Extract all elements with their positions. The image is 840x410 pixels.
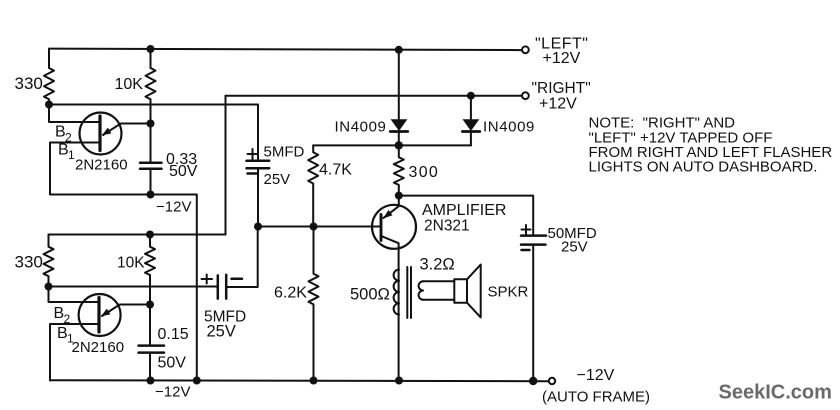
svg-text:2N2160: 2N2160 [75, 157, 128, 174]
svg-text:−12V: −12V [577, 367, 615, 384]
svg-text:SPKR: SPKR [488, 284, 529, 301]
svg-text:−12V: −12V [155, 384, 190, 401]
svg-text:4.7K: 4.7K [319, 162, 352, 179]
svg-text:3.2Ω: 3.2Ω [420, 256, 455, 274]
svg-text:LIGHTS ON AUTO DASHBOARD.: LIGHTS ON AUTO DASHBOARD. [589, 159, 818, 176]
svg-text:2N321: 2N321 [424, 218, 470, 235]
svg-text:+12V: +12V [543, 50, 581, 67]
svg-text:10K: 10K [117, 255, 145, 272]
svg-text:2: 2 [64, 312, 71, 326]
svg-text:AMPLIFIER: AMPLIFIER [422, 202, 506, 219]
svg-text:IN4009: IN4009 [483, 119, 535, 136]
svg-text:−12V: −12V [156, 199, 191, 216]
svg-text:25V: 25V [207, 323, 236, 341]
svg-text:500Ω: 500Ω [350, 286, 390, 304]
svg-text:25V: 25V [264, 171, 291, 188]
svg-text:IN4009: IN4009 [335, 119, 387, 136]
svg-text:10K: 10K [115, 76, 144, 93]
svg-text:5MFD: 5MFD [264, 144, 305, 161]
svg-text:50V: 50V [158, 355, 187, 372]
svg-text:(AUTO FRAME): (AUTO FRAME) [542, 389, 650, 406]
svg-text:2N2160: 2N2160 [72, 339, 125, 356]
svg-text:"RIGHT": "RIGHT" [532, 80, 591, 97]
svg-text:0.15: 0.15 [158, 326, 189, 343]
svg-text:300: 300 [409, 164, 440, 181]
svg-text:50V: 50V [169, 163, 198, 180]
svg-text:1: 1 [68, 148, 75, 162]
svg-text:+12V: +12V [539, 96, 577, 113]
svg-text:6.2K: 6.2K [274, 285, 307, 302]
svg-text:330: 330 [15, 253, 43, 272]
svg-text:25V: 25V [561, 239, 588, 256]
svg-text:SeekIC.com: SeekIC.com [719, 382, 832, 404]
svg-text:330: 330 [15, 74, 43, 93]
